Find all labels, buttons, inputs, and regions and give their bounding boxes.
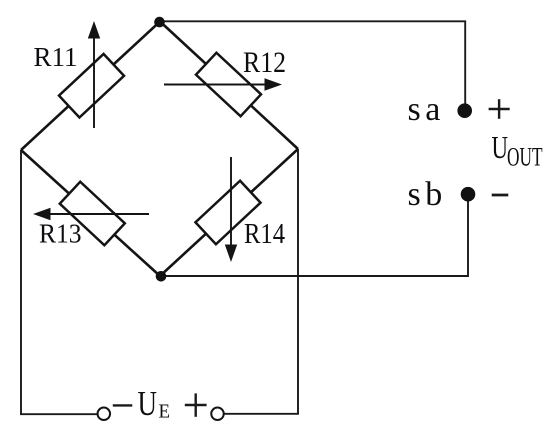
- terminal + (UE right, open circle): [211, 408, 224, 421]
- wire: [160, 22, 298, 150]
- wire: [21, 150, 98, 414]
- terminal sb: [461, 187, 476, 202]
- svg-text:E: E: [159, 400, 171, 422]
- svg-text:sb: sb: [408, 176, 447, 213]
- resistor R11: [59, 21, 124, 128]
- terminal - (UE left, open circle): [98, 408, 111, 421]
- terminal sa: [457, 103, 472, 118]
- label + (UE polarity): [185, 393, 207, 416]
- label U_OUT: [492, 130, 543, 172]
- resistor R14: [195, 157, 260, 262]
- label + (sa polarity): [489, 99, 510, 119]
- label - (UE polarity): [113, 404, 133, 406]
- wire: [21, 22, 160, 151]
- svg-text:R14: R14: [244, 219, 285, 250]
- label U_E: [138, 384, 171, 423]
- wire: [224, 149, 298, 414]
- svg-text:R12: R12: [243, 47, 286, 79]
- svg-text:sa: sa: [408, 91, 445, 128]
- svg-text:U: U: [492, 130, 509, 165]
- wire: [21, 150, 160, 276]
- resistor R12: [164, 53, 282, 117]
- wire: [160, 21, 465, 104]
- svg-text:U: U: [138, 384, 158, 423]
- wire: [160, 201, 468, 276]
- resistor R13: [33, 182, 149, 246]
- svg-text:OUT: OUT: [507, 143, 543, 172]
- svg-text:R13: R13: [39, 219, 82, 249]
- wire: [160, 149, 298, 276]
- svg-text:R11: R11: [34, 41, 78, 72]
- node bottom junction: [156, 271, 167, 282]
- label - (sb polarity): [492, 194, 509, 197]
- node top junction: [154, 17, 165, 28]
